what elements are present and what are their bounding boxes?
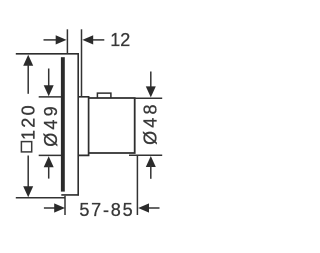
sleeve (Ø49)	[79, 97, 89, 156]
dim 120: upper line	[27, 64, 29, 94]
dim 57-85: right tail	[149, 207, 160, 209]
dim 48: upper line	[150, 72, 152, 89]
dim 57-85: right extension line	[136, 156, 138, 215]
wall plate right edge	[77, 54, 79, 196]
dim 12: left tail	[44, 39, 58, 41]
dim 57-85: left tail	[44, 207, 57, 209]
wall plate bottom line	[61, 194, 79, 196]
dim 49: top extension line	[39, 96, 61, 98]
dim 12: right arrowhead	[82, 35, 93, 44]
dim 48: top extension line	[134, 97, 162, 99]
dim 120: up arrowhead	[23, 55, 33, 66]
wall plate top line + left extension	[16, 53, 79, 55]
wall flange bar (plate thick left edge)	[61, 57, 65, 191]
dim 48: lower line	[150, 165, 152, 179]
dim 120: square glyph	[21, 142, 31, 152]
dim 57-85: left extension line	[64, 196, 66, 215]
svg-text:Ø49: Ø49	[41, 103, 61, 147]
button on handle	[97, 93, 111, 98]
plate bottom extension line	[16, 197, 66, 199]
dim 57-85: right arrowhead	[138, 203, 149, 212]
dim 48: down arrowhead	[146, 86, 156, 97]
dim 12: left arrowhead	[56, 35, 67, 44]
dim 49: bottom extension line	[39, 154, 61, 156]
dim 12: right tail	[93, 39, 104, 41]
dim 120: down arrowhead	[23, 186, 33, 197]
svg-text:57-85: 57-85	[79, 200, 134, 220]
dim 49: up arrowhead	[44, 156, 54, 167]
svg-text:Ø48: Ø48	[140, 101, 160, 145]
dim 49: lower line	[48, 165, 50, 179]
dim 120: lower line	[27, 156, 29, 189]
dim 48: bottom extension line	[129, 154, 162, 156]
dim 57-85: left arrowhead	[54, 203, 65, 212]
dim 49: down arrowhead	[44, 85, 54, 96]
svg-text:120: 120	[19, 103, 39, 140]
dim 48: up arrowhead	[146, 156, 156, 167]
svg-text:12: 12	[110, 30, 130, 50]
handle (Ø48)	[89, 98, 135, 153]
dim 49: upper line	[48, 69, 50, 89]
dim 12: extension line A	[66, 29, 68, 54]
dim 12: extension line B	[81, 29, 83, 97]
